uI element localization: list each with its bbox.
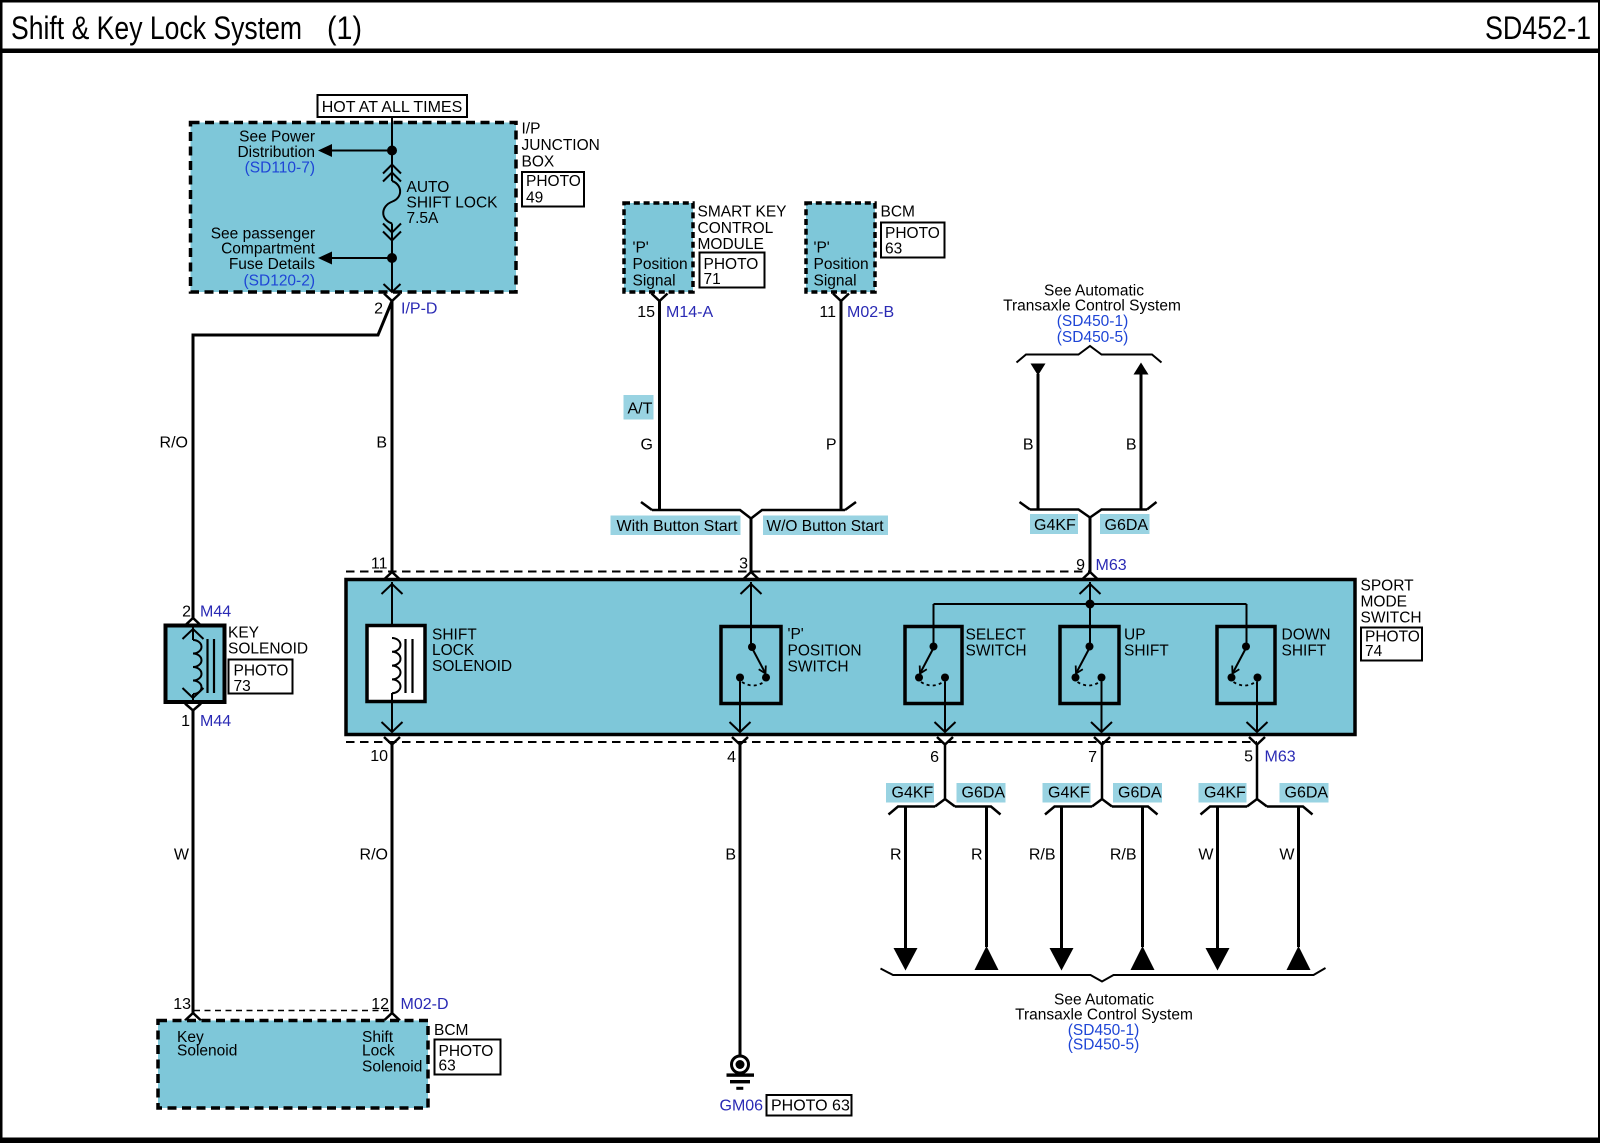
svg-text:Position: Position [633,256,688,273]
svg-text:63: 63 [885,241,902,258]
wire: merged B down to pin 9 [1089,518,1092,572]
label: See Automatic Transaxle Control System (SD450-1)(SD450-5) bottom [1015,992,1193,1054]
connector pin 5 (V) [1249,737,1265,745]
label: See Power Distribution (SD110-7) [237,129,315,177]
label: pin 12 M02-D [371,996,448,1013]
wire: B output to transaxle (arrow up) [1134,363,1149,510]
svg-text:W: W [174,847,190,864]
ground GM06 [727,1056,755,1090]
svg-text:'P': 'P' [814,240,830,257]
svg-text:M02-B: M02-B [847,304,894,321]
svg-text:PHOTO 63: PHOTO 63 [771,1098,850,1115]
svg-text:4: 4 [727,749,736,766]
svg-text:(SD120-2): (SD120-2) [244,273,316,290]
svg-text:1: 1 [181,713,190,730]
svg-text:Solenoid: Solenoid [177,1043,237,1060]
svg-text:R/B: R/B [1029,847,1056,864]
svg-text:SWITCH: SWITCH [966,643,1027,660]
svg-text:M44: M44 [200,713,231,730]
SMART KEY CONTROL MODULE (dashed module) [624,203,693,292]
wire: B from pin 4 to ground GM06 [739,745,742,1057]
svg-text:W: W [1279,847,1295,864]
svg-text:A/T: A/T [628,401,653,418]
label: G6DA (highlighted, top) [1100,514,1150,534]
connector pin 10 (V) [384,737,400,745]
wire: branch from pin 2 to key solenoid (R/O) [193,301,392,619]
svg-text:G4KF: G4KF [1048,785,1090,802]
label: AUTO SHIFT LOCK 7.5A [407,179,499,227]
svg-text:See Power: See Power [239,129,315,146]
svg-text:DOWN: DOWN [1282,627,1331,644]
fuse: AUTO SHIFT LOCK 7.5A [383,165,401,241]
connector pin 1 M44 [181,704,231,731]
svg-text:GM06: GM06 [720,1098,764,1115]
label: See passenger Compartment Fuse Details (SD120-2) [211,226,316,290]
svg-text:13: 13 [173,996,191,1013]
wire: option merge With/W-O Button Start into pin 3 [641,502,856,519]
svg-text:UP: UP [1124,627,1146,644]
svg-text:G4KF: G4KF [1204,785,1246,802]
wire: merged signal down to pin 3 [750,519,753,572]
svg-text:M63: M63 [1265,749,1296,766]
node: sport mode switch internal bus junction [1086,600,1095,609]
svg-text:73: 73 [234,678,251,695]
svg-text:BCM: BCM [434,1022,468,1039]
svg-text:With Button Start: With Button Start [617,518,738,535]
wire: W branch (G6DA) with up arrow [1287,807,1311,971]
svg-text:B: B [1023,437,1034,454]
label: DOWN SHIFT [1282,627,1331,660]
svg-text:SHIFT: SHIFT [1282,643,1327,660]
svg-text:15: 15 [637,304,655,321]
svg-text:Distribution: Distribution [237,144,315,161]
svg-text:B: B [725,847,736,864]
svg-text:M44: M44 [200,604,231,621]
wire: P from M02-B pin 11 down to option merge [840,301,843,510]
connector pin 11 (V) [384,572,400,580]
node: junction to passenger fuse details [387,253,397,263]
svg-text:R/B: R/B [1110,847,1137,864]
svg-text:MODE: MODE [1361,594,1408,611]
wire: R branch (G4KF) with down arrow [894,807,918,971]
wire: battery feed inside I/P junction box [391,117,393,181]
svg-text:I/P-D: I/P-D [401,301,437,318]
wire: W branch (G4KF) with down arrow [1206,807,1230,971]
label: PHOTO 63 (top) [881,223,945,258]
connector pin 13 (V) [185,1013,201,1021]
wire: G from M14-A pin 15 down to option merge [658,301,661,510]
svg-text:9: 9 [1076,557,1085,574]
switch: DOWN SHIFT [1217,627,1275,704]
svg-text:BCM: BCM [881,204,915,221]
label: 'P' Position Signal (smart key) [633,240,688,290]
label: PHOTO 73 [229,660,293,696]
svg-text:Solenoid: Solenoid [362,1059,422,1076]
wire: pin 3 entry arrow [741,582,762,646]
svg-text:LOCK: LOCK [432,642,475,659]
label: PHOTO 49 [522,172,584,207]
svg-text:PHOTO: PHOTO [234,663,289,680]
label: A/T (highlighted) [624,395,654,420]
svg-text:(SD450-5): (SD450-5) [1068,1037,1140,1054]
svg-text:SD452-1: SD452-1 [1485,10,1591,46]
svg-text:2: 2 [182,604,191,621]
connector pin 12 (V) [384,1013,400,1021]
svg-text:SHIFT LOCK: SHIFT LOCK [407,195,499,212]
svg-text:CONTROL: CONTROL [698,220,774,237]
wire: R/B branch (G4KF) with down arrow [1050,807,1074,971]
node: junction to power distribution [387,146,397,156]
svg-text:Lock: Lock [362,1043,395,1060]
svg-text:Compartment: Compartment [221,241,316,258]
wire: down shift exit arrow [1247,682,1268,733]
wire: R branch (G6DA) with up arrow [975,807,999,971]
svg-text:Transaxle Control System: Transaxle Control System [1003,298,1181,315]
label: UP SHIFT [1124,627,1169,660]
svg-text:49: 49 [526,190,543,207]
label: G4KF (highlighted, pin 7) [1043,783,1091,803]
wire: R/B branch (G6DA) with up arrow [1131,807,1155,971]
connector pin 2 M44 [182,604,231,626]
label: 'P' Position Signal (BCM) [814,240,869,290]
label: With Button Start (highlighted) [611,516,741,536]
connector pin 3 (V) [743,572,759,580]
label: Key Solenoid (in BCM) [177,1029,237,1060]
svg-text:R/O: R/O [360,847,388,864]
connector pin 15 M14-A [637,294,713,322]
svg-text:SWITCH: SWITCH [1361,610,1422,627]
svg-text:PHOTO: PHOTO [526,173,581,190]
BCM (dashed module, top) [806,203,875,292]
label: SHIFT LOCK SOLENOID [432,627,512,676]
svg-text:POSITION: POSITION [788,643,862,660]
connector pin 4 (V) [732,737,748,745]
connector pin 2 I/P-D [374,284,437,318]
wire: dashed connector row M63 top [346,571,1090,573]
wire: pin 9 entry arrow [1080,582,1101,604]
label: Shift Lock Solenoid (in BCM) [362,1029,422,1076]
label: pin 9 M63 [1076,557,1127,574]
wire: pin 5 split to G4KF/G6DA [1201,745,1313,815]
connector pin 9 (V) [1082,572,1098,580]
svg-text:HOT AT ALL TIMES: HOT AT ALL TIMES [322,99,463,116]
svg-text:(1): (1) [327,10,362,46]
label: pin 5 M63 [1244,749,1296,766]
label: PHOTO 71 [700,253,765,289]
svg-text:74: 74 [1365,643,1383,660]
svg-text:(SD450-5): (SD450-5) [1057,329,1129,346]
connector pin 6 (V) [937,737,953,745]
svg-text:(SD110-7): (SD110-7) [245,160,315,177]
svg-text:JUNCTION: JUNCTION [522,137,600,154]
wire: select switch exit arrow [935,682,956,733]
svg-text:6: 6 [930,749,939,766]
svg-text:SPORT: SPORT [1361,578,1415,595]
svg-text:2: 2 [374,301,383,318]
label: G6DA (highlighted, pin 7) [1113,783,1162,803]
svg-text:Fuse Details: Fuse Details [229,256,315,273]
wire: arrow to See Power Distribution [318,144,392,157]
label: 'P' POSITION SWITCH [788,626,862,676]
svg-text:R: R [890,847,902,864]
svg-text:G6DA: G6DA [1105,517,1149,534]
label: PHOTO 63 (ground) [767,1095,852,1116]
svg-text:M14-A: M14-A [666,304,713,321]
label: G4KF (highlighted, top) [1030,514,1078,534]
wire: pin 7 split to G4KF/G6DA [1045,745,1158,815]
label: SPORT MODE SWITCH [1361,578,1422,627]
label: G4KF (highlighted, pin 5) [1199,783,1247,803]
wire: W from key solenoid pin 1 to BCM pin 13 [192,711,195,1014]
brace: transaxle reference bracket [1017,346,1162,363]
svg-text:3: 3 [739,556,748,573]
FRAME [0,0,1600,3]
wire: dashed connector row M02-D [194,1010,389,1012]
wire: P position switch exit arrow [730,682,751,733]
svg-text:MODULE: MODULE [698,236,764,253]
svg-text:63: 63 [439,1058,456,1075]
svg-text:'P': 'P' [788,626,804,643]
svg-text:G4KF: G4KF [892,785,934,802]
I/P JUNCTION BOX (dashed module) [191,123,517,293]
wire: internal bus to three switches [934,604,1247,646]
wire: dashed connector row M63 bottom [346,741,1257,743]
svg-text:10: 10 [370,748,388,765]
wire: up shift exit arrow [1091,682,1112,733]
svg-text:M63: M63 [1096,557,1127,574]
SPORT MODE SWITCH (module box) [346,580,1355,735]
BCM (dashed module, bottom) [158,1021,428,1109]
label: PHOTO 63 (bottom BCM) [435,1040,501,1075]
svg-text:Position: Position [814,256,869,273]
label: KEY SOLENOID [228,625,308,658]
svg-text:Shift & Key Lock System: Shift & Key Lock System [11,10,302,46]
solenoid: KEY SOLENOID [166,626,225,703]
svg-text:SOLENOID: SOLENOID [228,641,308,658]
svg-text:PHOTO: PHOTO [885,225,940,242]
svg-text:SOLENOID: SOLENOID [432,658,512,675]
svg-text:I/P: I/P [522,121,541,138]
svg-text:W: W [1198,847,1214,864]
svg-text:SMART KEY: SMART KEY [698,204,787,221]
svg-text:Signal: Signal [633,273,676,290]
svg-text:71: 71 [704,271,721,288]
svg-text:G6DA: G6DA [962,785,1006,802]
brace: transaxle reference bracket bottom [881,968,1326,982]
switch: 'P' POSITION SWITCH [721,627,781,704]
svg-text:SELECT: SELECT [966,627,1027,644]
label: SELECT SWITCH [966,627,1027,660]
svg-text:Transaxle Control System: Transaxle Control System [1015,1007,1193,1024]
svg-text:7: 7 [1088,749,1097,766]
svg-text:W/O Button Start: W/O Button Start [767,518,885,535]
svg-text:G6DA: G6DA [1285,785,1329,802]
svg-text:G4KF: G4KF [1034,517,1076,534]
switch: UP SHIFT [1060,627,1119,704]
svg-text:(SD450-1): (SD450-1) [1057,313,1129,330]
connector pin 7 (V) [1094,737,1110,745]
switch: SELECT SWITCH [905,627,962,704]
svg-text:G: G [641,437,653,454]
wire: R/O from pin 10 to BCM pin 12 [391,745,394,1014]
svg-text:G6DA: G6DA [1118,785,1162,802]
label: G6DA (highlighted, pin 5) [1280,783,1329,803]
svg-text:Signal: Signal [814,273,857,290]
solenoid: SHIFT LOCK SOLENOID [367,626,425,702]
svg-text:SWITCH: SWITCH [788,659,849,676]
svg-text:AUTO: AUTO [407,179,450,196]
label: HOT AT ALL TIMES [318,95,468,117]
svg-text:BOX: BOX [522,154,555,171]
label: PHOTO 74 [1361,628,1422,661]
wire: B from I/P-D pin 2 down to sport mode switch pin 11 [391,301,394,572]
svg-text:5: 5 [1244,749,1253,766]
svg-text:R: R [971,847,983,864]
svg-text:7.5A: 7.5A [407,210,440,227]
wire: G4KF/G6DA merge into pin 9 [1020,502,1157,518]
wire: pin 11 entry arrow [382,582,403,640]
svg-text:11: 11 [371,556,388,573]
wire: arrow to See passenger Compartment Fuse Details [318,252,392,265]
connector pin 11 M02-B [819,294,894,322]
label: SMART KEY CONTROL MODULE [698,204,787,254]
svg-text:SHIFT: SHIFT [432,627,477,644]
wire: pin 6 split to G4KF/G6DA [889,745,1001,815]
wire: B input from transaxle (arrow down) [1031,364,1046,510]
svg-text:SHIFT: SHIFT [1124,643,1169,660]
wire: shift lock solenoid exit arrow [382,693,403,732]
svg-text:P: P [826,437,837,454]
svg-text:B: B [1126,437,1137,454]
svg-text:12: 12 [371,996,389,1013]
label: G6DA (highlighted, pin 6) [957,783,1006,803]
svg-text:KEY: KEY [228,625,259,642]
svg-text:R/O: R/O [160,435,188,452]
svg-text:'P': 'P' [633,240,649,257]
label: See Automatic Transaxle Control System (SD450-1)(SD450-5) top [1003,283,1181,347]
svg-text:B: B [376,435,387,452]
label: I/P JUNCTION BOX [522,121,600,171]
label: W/O Button Start (highlighted) [763,516,888,536]
svg-text:11: 11 [819,304,836,321]
label: G4KF (highlighted, pin 6) [886,783,934,803]
svg-text:M02-D: M02-D [401,996,449,1013]
